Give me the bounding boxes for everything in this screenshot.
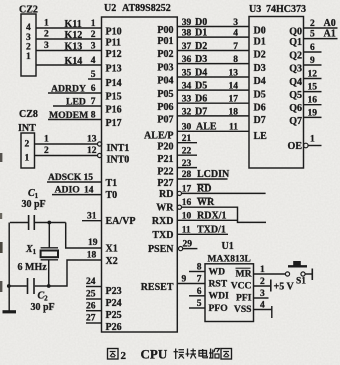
svg-text:LCDIN: LCDIN xyxy=(197,169,230,180)
wire data bus D2 U2 pin 37 to U3 pin 7 xyxy=(177,50,249,52)
svg-text:ADRDY: ADRDY xyxy=(51,84,86,95)
U3 pin 15 stub wire xyxy=(304,91,322,93)
wire LCDIN U2 pin 28 xyxy=(177,178,227,180)
switch S1 terminal bar xyxy=(311,269,313,281)
svg-text:Q7: Q7 xyxy=(289,116,302,127)
IC U3 reference designator xyxy=(249,4,261,15)
svg-text:D1: D1 xyxy=(195,28,207,39)
U2 pin name P27 xyxy=(157,178,173,189)
U2 pin number 21 xyxy=(182,134,192,144)
net label A0 xyxy=(324,18,336,29)
svg-text:5: 5 xyxy=(310,30,315,40)
U3 pin 16 stub wire xyxy=(304,104,322,106)
svg-text:TXD: TXD xyxy=(152,230,173,241)
svg-text:PFO: PFO xyxy=(209,303,228,314)
U2 pin number 13 xyxy=(87,135,97,145)
svg-text:1: 1 xyxy=(25,154,30,164)
svg-text:24: 24 xyxy=(86,277,96,287)
svg-text:VCC: VCC xyxy=(231,280,252,291)
net number 2 on K12 wire xyxy=(44,30,49,40)
svg-text:A1: A1 xyxy=(324,29,336,40)
U2 pin number 30 xyxy=(182,123,192,133)
U3 pin 1 OE stub wire xyxy=(308,145,321,147)
svg-text:T0: T0 xyxy=(106,190,118,201)
inverting bubble on U2 pin 29 PSEN xyxy=(179,247,183,251)
svg-text:S1: S1 xyxy=(296,277,306,287)
U3 pin name OE xyxy=(288,141,303,152)
U3 pin number 11 xyxy=(229,123,238,133)
svg-text:28: 28 xyxy=(182,170,192,180)
U3 pin 19 stub wire xyxy=(304,116,322,118)
inverting bubble on U2 pin 13 INT1 xyxy=(98,142,102,146)
net label K13 xyxy=(65,41,83,52)
svg-text:Q0: Q0 xyxy=(289,27,302,38)
capacitor C2 value 30 pF xyxy=(31,302,55,313)
U2 pin name INT0 xyxy=(107,155,130,166)
svg-text:P01: P01 xyxy=(157,36,173,47)
wire LED to U2 pin 7 xyxy=(53,105,102,107)
svg-text:D7: D7 xyxy=(254,115,266,126)
bus net label D2 xyxy=(195,41,207,52)
svg-text:35: 35 xyxy=(182,69,192,79)
wire CZ8-1 to U2 INT1 pin 13 xyxy=(35,143,98,145)
svg-text:17: 17 xyxy=(182,184,192,194)
U2 pin number 38 xyxy=(182,29,192,39)
junction dot X1 net to crystal xyxy=(47,221,51,225)
CZ2 pin 3 label xyxy=(26,33,31,43)
caption text CPU xyxy=(141,347,168,362)
U2 pin 22 stub wire xyxy=(177,154,197,156)
svg-text:34: 34 xyxy=(182,82,192,92)
U3 pin number 2 xyxy=(310,19,315,29)
svg-text:33: 33 xyxy=(182,95,192,105)
U2 pin number 18 xyxy=(87,251,97,261)
svg-text:EA/VP: EA/VP xyxy=(106,216,136,227)
wire ALE U2 pin 30 to U3 LE pin 11 xyxy=(177,130,249,132)
capacitor C1 value 30 pF xyxy=(22,199,46,210)
wire CZ8-2 to U2 INT0 pin 12 xyxy=(35,155,98,157)
U3 pin name D5 xyxy=(254,89,266,100)
svg-text:3: 3 xyxy=(233,18,238,28)
U2 pin name P13 xyxy=(106,64,122,75)
svg-text:14: 14 xyxy=(229,82,239,92)
svg-text:17: 17 xyxy=(229,95,239,105)
wire data bus D4 U2 pin 35 to U3 pin 13 xyxy=(177,76,249,78)
U3 pin number 16 xyxy=(308,96,318,106)
U3 pin name Q6 xyxy=(289,103,302,114)
U2 pin number 36 xyxy=(182,55,192,65)
svg-text:D6: D6 xyxy=(254,102,266,113)
U2 pin name RESET xyxy=(141,282,174,293)
wire address A0 from U3 pin 2 xyxy=(304,27,338,29)
svg-text:D0: D0 xyxy=(195,17,207,28)
switch S1 right contact xyxy=(301,272,305,276)
U2 pin number 6 xyxy=(91,84,96,94)
wire data bus D6 U2 pin 33 to U3 pin 17 xyxy=(177,102,249,104)
svg-text:14: 14 xyxy=(84,186,94,196)
wire MODEM to U2 pin 8 xyxy=(48,119,102,121)
svg-text:ADSCK: ADSCK xyxy=(48,173,82,183)
wire TXD/1 U2 pin 11 xyxy=(177,233,228,235)
CZ8 pin 2 label xyxy=(25,140,30,150)
scan artifact smudges xyxy=(0,153,3,292)
U3 pin number 17 xyxy=(229,95,239,105)
svg-text:2: 2 xyxy=(25,140,30,150)
U1 pin number 4 xyxy=(260,301,265,311)
U1 PFI pin 3 stub wire xyxy=(254,297,269,299)
wire X1 net left segment through C1 xyxy=(10,222,66,224)
U2 pin number 34 xyxy=(182,82,192,92)
U2 pin number 32 xyxy=(182,107,192,117)
svg-text:P07: P07 xyxy=(157,115,173,126)
svg-text:P24: P24 xyxy=(106,298,122,309)
U3 pin number 15 xyxy=(308,83,318,93)
inverting bubble on U2 pin 16 WR xyxy=(177,205,181,209)
U2 pin number 15 xyxy=(84,173,94,183)
switch S1 label xyxy=(296,277,306,287)
U2 pin 27 stub wire xyxy=(86,322,102,324)
U2 pin number 25 xyxy=(86,290,96,300)
U2 pin name T0 xyxy=(106,190,118,201)
svg-text:A0: A0 xyxy=(324,18,336,29)
IC U2 reference designator xyxy=(104,3,116,14)
U2 pin 5 stub wire xyxy=(88,78,102,80)
wire K11 from CZ2 to U2 pin 1 xyxy=(36,27,102,29)
svg-text:K11: K11 xyxy=(65,19,82,30)
+5V power terminal bar xyxy=(270,280,272,292)
U2 pin number 27 xyxy=(86,314,96,324)
U3 pin name Q1 xyxy=(289,37,302,48)
net label MODEM xyxy=(49,110,88,121)
svg-text:RD: RD xyxy=(197,183,211,194)
svg-text:CPU: CPU xyxy=(141,347,168,362)
svg-text:32: 32 xyxy=(182,107,192,117)
svg-text:2: 2 xyxy=(121,350,127,362)
capacitor C1 plates xyxy=(29,215,35,230)
U2 pin name P24 xyxy=(106,298,122,309)
svg-text:WR: WR xyxy=(156,203,174,214)
svg-text:P00: P00 xyxy=(157,25,173,36)
U2 pin 25 stub wire xyxy=(86,298,102,300)
svg-text:LED: LED xyxy=(66,97,86,108)
wire K12 from CZ2 to U2 pin 2 xyxy=(36,38,102,40)
bus net label D5 xyxy=(195,81,207,92)
bus net label D3 xyxy=(195,54,207,65)
U3 pin number 14 xyxy=(229,82,239,92)
U2 pin name INT1 xyxy=(107,143,130,154)
wire X2 net left segment through C2 xyxy=(9,285,49,287)
svg-text:22: 22 xyxy=(182,147,192,157)
svg-text:P03: P03 xyxy=(157,62,173,73)
svg-text:D4: D4 xyxy=(254,76,266,87)
svg-text:Q3: Q3 xyxy=(289,64,302,75)
wire crystal bottom to X2 net xyxy=(48,260,50,286)
svg-text:ADIO: ADIO xyxy=(55,185,81,196)
CZ2 pin 2 label xyxy=(26,42,31,52)
U3 pin number 5 xyxy=(310,30,315,40)
svg-text:13: 13 xyxy=(87,135,97,145)
U3 pin number 6 xyxy=(310,43,315,53)
bus net label D6 xyxy=(195,94,207,105)
svg-text:4: 4 xyxy=(233,29,238,39)
svg-text:7: 7 xyxy=(91,97,96,107)
bus net label D4 xyxy=(195,68,207,79)
svg-text:WDI: WDI xyxy=(209,291,230,302)
svg-text:39: 39 xyxy=(182,18,192,28)
U2 pin name EA/VP xyxy=(106,216,136,227)
wire ADIO to U2 pin 14 xyxy=(52,194,102,196)
svg-text:3: 3 xyxy=(26,33,31,43)
svg-text:8: 8 xyxy=(233,55,238,65)
junction dot crystal to X2 net xyxy=(47,284,51,288)
svg-text:5: 5 xyxy=(197,299,202,309)
svg-text:2: 2 xyxy=(44,30,49,40)
svg-text:2: 2 xyxy=(310,19,315,29)
U2 pin number 2 xyxy=(91,30,96,40)
U3 pin number 1 xyxy=(310,135,315,145)
crystal X1 bottom plate xyxy=(41,259,58,261)
svg-text:P10: P10 xyxy=(106,27,122,38)
svg-text:WR: WR xyxy=(197,197,215,208)
svg-text:13: 13 xyxy=(229,69,239,79)
U3 pin name Q4 xyxy=(289,77,302,88)
U2 pin number 33 xyxy=(182,95,192,105)
U3 pin name LE xyxy=(254,131,268,142)
U3 pin number 12 xyxy=(308,70,318,80)
U1 pin number 2 xyxy=(260,277,265,287)
connector CZ2 body xyxy=(21,14,36,76)
svg-text:U3: U3 xyxy=(249,4,261,15)
junction dot ground rail to C2 xyxy=(7,284,11,288)
net label A1 xyxy=(324,29,336,40)
svg-text:1: 1 xyxy=(91,19,96,29)
U2 pin name WR xyxy=(156,203,174,214)
U3 pin name Q5 xyxy=(289,90,302,101)
svg-text:8: 8 xyxy=(91,111,96,121)
ground symbol xyxy=(3,310,17,313)
svg-text:23: 23 xyxy=(182,159,192,169)
svg-text:38: 38 xyxy=(182,29,192,39)
svg-text:36: 36 xyxy=(182,55,192,65)
U2 pin number 17 xyxy=(182,184,192,194)
net label K11 xyxy=(65,19,82,30)
svg-text:Q1: Q1 xyxy=(289,37,302,48)
U1 pin number 7 xyxy=(197,275,202,285)
U1 pin name PFI xyxy=(236,292,252,303)
wire crystal top to X1 net xyxy=(48,223,50,248)
svg-text:12: 12 xyxy=(308,70,318,80)
U2 pin number 12 xyxy=(87,146,97,156)
svg-text:Q6: Q6 xyxy=(289,103,302,114)
U3 pin number 13 xyxy=(229,69,239,79)
wire data bus D3 U2 pin 36 to U3 pin 8 xyxy=(177,63,249,65)
U2 pin name X2 xyxy=(106,256,118,267)
U2 pin name T1 xyxy=(106,178,118,189)
svg-text:P12: P12 xyxy=(106,49,122,60)
inverting bubble on U2 pin 12 INT0 xyxy=(98,153,102,157)
svg-text:P27: P27 xyxy=(157,178,173,189)
svg-text:TXD/1: TXD/1 xyxy=(197,224,226,235)
svg-text:D2: D2 xyxy=(254,50,266,61)
svg-text:T1: T1 xyxy=(106,178,118,189)
U3 pin name Q3 xyxy=(289,64,302,75)
svg-text:30: 30 xyxy=(182,123,192,133)
svg-text:11: 11 xyxy=(229,123,238,133)
IC U2 part number AT89S8252 xyxy=(122,3,171,14)
U3 pin name D6 xyxy=(254,102,266,113)
svg-text:6: 6 xyxy=(310,43,315,53)
switch S1 actuator bar xyxy=(288,265,307,267)
wire ground rail vertical xyxy=(8,223,10,312)
svg-text:OE: OE xyxy=(288,141,303,152)
connector CZ8 body xyxy=(21,133,35,168)
svg-text:P26: P26 xyxy=(106,322,122,333)
U1 pin name VSS xyxy=(234,304,252,315)
IC U1 MAX813L body xyxy=(205,264,254,322)
svg-text:D1: D1 xyxy=(254,36,266,47)
U2 pin 26 stub wire xyxy=(86,310,102,312)
net label RD with overline xyxy=(197,183,212,194)
U2 pin 24 stub wire xyxy=(86,286,102,288)
svg-text:X2: X2 xyxy=(106,256,118,267)
U2 pin name P06 xyxy=(157,102,173,113)
net label LCDIN xyxy=(197,169,230,180)
svg-text:16: 16 xyxy=(308,96,318,106)
U2 pin number 10 xyxy=(182,211,192,221)
U1 pin 6 stub wire xyxy=(189,295,205,297)
U1 pin number 8 xyxy=(197,263,202,273)
U1 pin name PFO xyxy=(209,303,228,314)
svg-text:21: 21 xyxy=(182,134,192,144)
U2 pin number 23 xyxy=(182,159,192,169)
U3 pin number 9 xyxy=(310,56,315,66)
svg-text:CZ8: CZ8 xyxy=(19,109,38,120)
svg-text:K14: K14 xyxy=(65,56,83,67)
wire RESET U2 pin 9 to U1 RST xyxy=(177,283,205,285)
crystal X1 body xyxy=(41,251,58,258)
U2 pin number 22 xyxy=(182,147,192,157)
svg-text:ALE: ALE xyxy=(196,122,217,133)
IC U3 part number 74HC373 xyxy=(266,4,306,15)
U2 pin name P04 xyxy=(157,76,173,87)
U2 pin name P14 xyxy=(106,78,122,89)
net label WR with overline xyxy=(197,197,215,208)
net label ADSCK xyxy=(48,173,82,183)
svg-text:16: 16 xyxy=(182,198,192,208)
U3 pin name D2 xyxy=(254,50,266,61)
svg-text:P06: P06 xyxy=(157,102,173,113)
svg-text:P15: P15 xyxy=(106,92,122,103)
svg-text:10: 10 xyxy=(182,211,192,221)
svg-text:RXD: RXD xyxy=(152,216,174,227)
U3 pin name D3 xyxy=(254,63,266,74)
svg-text:9: 9 xyxy=(310,56,315,66)
U2 pin name PSEN xyxy=(148,244,174,255)
svg-text:MAX813L: MAX813L xyxy=(208,254,251,264)
U2 pin name P16 xyxy=(106,105,122,116)
U3 pin name D4 xyxy=(254,76,266,87)
svg-text:P20: P20 xyxy=(157,141,173,152)
net number 1 on K11 wire xyxy=(44,19,49,29)
wire ADSCK to U2 pin 15 xyxy=(47,181,102,183)
U2 pin 21 stub wire xyxy=(177,142,197,144)
svg-text:Q4: Q4 xyxy=(289,77,302,88)
svg-text:1: 1 xyxy=(26,52,31,62)
capacitor C2 plates xyxy=(28,278,35,294)
connector CZ2 label xyxy=(19,5,38,16)
net label ADRDY xyxy=(51,84,86,95)
svg-text:P16: P16 xyxy=(106,105,122,116)
U3 pin number 3 xyxy=(233,18,238,28)
U2 pin number 26 xyxy=(86,301,96,311)
IC U1 part number MAX813L xyxy=(208,254,251,264)
svg-text:3: 3 xyxy=(44,41,49,51)
wire data bus D0 U2 pin 39 to U3 pin 3 xyxy=(177,26,249,28)
svg-text:U2: U2 xyxy=(104,3,116,14)
U2 pin name P20 xyxy=(157,141,173,152)
net label LED xyxy=(66,97,86,108)
U2 pin name P00 xyxy=(157,25,173,36)
U2 pin name P17 xyxy=(106,118,122,129)
U1 pin name VCC xyxy=(231,280,252,291)
switch S1 left contact xyxy=(285,272,289,276)
svg-text:19: 19 xyxy=(88,238,98,248)
U2 pin name ALE/P xyxy=(144,130,173,141)
caption figure number glyph (CJK tu) xyxy=(108,349,119,360)
U3 pin 6 stub wire xyxy=(304,51,322,53)
wire address A1 from U3 pin 5 xyxy=(304,38,338,40)
U3 pin name D0 xyxy=(254,26,266,37)
svg-text:29: 29 xyxy=(183,240,193,250)
net label ADIO xyxy=(55,185,81,196)
U1 VSS pin 4 stub wire xyxy=(254,309,272,311)
U2 pin number 1 xyxy=(91,19,96,29)
caption CJK text module circuit diagram xyxy=(174,349,232,360)
U2 pin number 29 xyxy=(183,240,193,250)
svg-text:15: 15 xyxy=(84,173,94,183)
U3 pin number 4 xyxy=(233,29,238,39)
svg-text:2: 2 xyxy=(91,30,96,40)
inverting bubble on U2 pin 17 RD xyxy=(177,191,181,195)
U2 pin number 5 xyxy=(91,70,96,80)
capacitor C2 label xyxy=(38,291,49,303)
svg-text:5: 5 xyxy=(91,70,96,80)
U2 pin number 4 xyxy=(91,56,96,66)
U2 pin name P10 xyxy=(106,27,122,38)
svg-text:P14: P14 xyxy=(106,78,122,89)
inverting bubble on U3 pin 1 OE xyxy=(304,143,309,148)
wire PSEN U2 pin 29 stub xyxy=(183,248,198,250)
U2 pin name P03 xyxy=(157,62,173,73)
U2 pin 23 stub wire xyxy=(177,167,197,169)
U1 pin name WD xyxy=(209,266,226,277)
U2 pin number 39 xyxy=(182,18,192,28)
U2 pin number 9 xyxy=(182,274,187,284)
U1 pin name WDI xyxy=(209,291,230,302)
U2 pin name P26 xyxy=(106,322,122,333)
svg-text:D7: D7 xyxy=(195,106,207,117)
net number 3 on K13 wire xyxy=(44,41,49,51)
svg-text:12: 12 xyxy=(87,146,97,156)
wire switch S1 to terminal xyxy=(305,273,312,275)
U2 pin number 24 xyxy=(86,277,96,287)
svg-text:7: 7 xyxy=(197,275,202,285)
U2 pin name P21 xyxy=(157,154,173,165)
svg-text:2: 2 xyxy=(26,42,31,52)
U2 pin name RXD xyxy=(152,216,174,227)
net label ALE xyxy=(196,122,217,133)
U2 pin name P25 xyxy=(106,310,122,321)
